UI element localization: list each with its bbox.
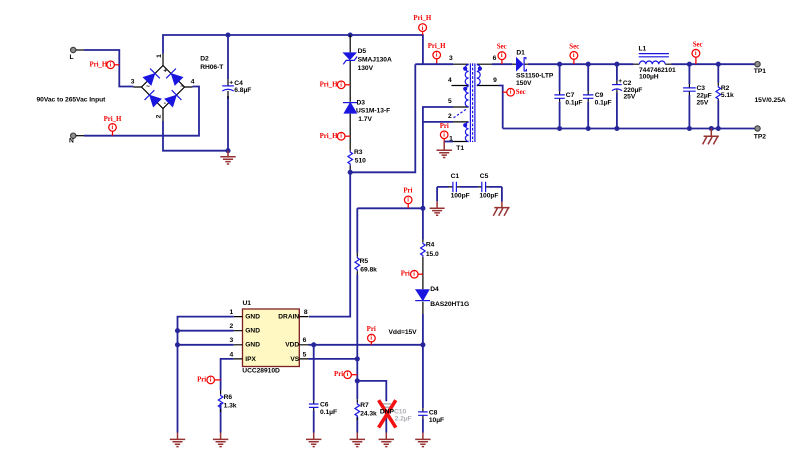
capacitor C4 — [222, 79, 251, 99]
test point TP2 — [754, 126, 766, 141]
svg-text:5.1k: 5.1k — [721, 92, 734, 99]
wire clamp column — [349, 35, 351, 172]
svg-text:L1: L1 — [639, 46, 647, 53]
svg-text:25V: 25V — [624, 94, 636, 101]
ground R7 — [350, 433, 365, 447]
svg-text:TP1: TP1 — [754, 68, 766, 75]
secondary winding 6-9 — [477, 65, 480, 85]
label Pri at R4/D4 — [401, 270, 423, 278]
polarity dot pri — [463, 67, 467, 71]
wire GND bus — [178, 317, 234, 433]
svg-text:C8: C8 — [429, 410, 438, 417]
label Pri at Vdd — [367, 326, 376, 345]
op-amp U1 body — [230, 300, 309, 375]
SECTION: clamp — [309, 32, 415, 316]
svg-text:+: + — [229, 80, 233, 87]
ground R6 — [213, 433, 228, 447]
ground C6 — [306, 433, 321, 447]
svg-text:Pri_H: Pri_H — [104, 116, 122, 123]
primary winding 4-5 — [465, 86, 468, 106]
svg-text:Pri_H: Pri_H — [320, 133, 338, 140]
svg-text:UCC28910D: UCC28910D — [242, 368, 280, 375]
svg-text:SS1150-LTP: SS1150-LTP — [516, 73, 554, 80]
svg-text:IPX: IPX — [245, 356, 256, 363]
svg-text:DNP: DNP — [380, 409, 395, 416]
inductor L1 — [639, 46, 677, 81]
wire bridge pin2 to gnd junction — [163, 121, 228, 151]
svg-text:100pF: 100pF — [451, 193, 470, 200]
svg-text:1: 1 — [156, 54, 163, 58]
wire VS — [309, 358, 358, 360]
svg-text:R5: R5 — [360, 258, 369, 265]
junction dot R3 bottom — [348, 170, 353, 175]
wire C10 branch — [357, 381, 386, 433]
svg-text:130V: 130V — [358, 65, 374, 72]
terminal N — [69, 133, 84, 145]
wire sec bottom rail — [503, 128, 755, 130]
svg-text:Sec: Sec — [569, 44, 579, 51]
label Pri_H clamp upper — [320, 81, 351, 89]
junction dot bus pin2 — [175, 328, 180, 333]
label Pri_H on L wire — [89, 61, 119, 69]
svg-text:R6: R6 — [224, 394, 233, 401]
wire C6 branch — [313, 345, 315, 433]
svg-text:+: + — [618, 78, 622, 85]
svg-text:Sec: Sec — [497, 44, 507, 51]
junction dot C2 bottom — [614, 126, 619, 131]
capacitor C9 — [583, 64, 612, 128]
svg-text:2.2µF: 2.2µF — [395, 415, 412, 422]
svg-text:3: 3 — [230, 337, 234, 344]
svg-text:8: 8 — [304, 309, 308, 316]
wire aux to R5 — [357, 207, 423, 209]
svg-text:Pri: Pri — [197, 376, 206, 383]
SECTION: controller — [170, 300, 423, 447]
svg-text:SMAJ130A: SMAJ130A — [358, 56, 392, 63]
wire Vdd down to C8 — [422, 345, 424, 433]
svg-text:~: ~ — [180, 83, 184, 90]
wire pin3 row — [415, 63, 453, 65]
svg-text:Pri_H: Pri_H — [320, 82, 338, 89]
svg-text:22µF: 22µF — [697, 92, 712, 99]
junction dot VDD/C6 — [311, 342, 316, 347]
svg-text:T1: T1 — [456, 145, 464, 152]
svg-text:US1M-13-F: US1M-13-F — [356, 108, 390, 115]
svg-text:5: 5 — [303, 351, 307, 358]
junction dot C3 top — [687, 62, 692, 67]
label Pri_H on N wire — [104, 116, 122, 136]
svg-text:510: 510 — [355, 157, 366, 164]
wire drain vertical — [309, 172, 350, 316]
svg-text:4: 4 — [191, 79, 195, 86]
svg-text:Pri_H: Pri_H — [428, 43, 446, 50]
ground C1 (earth) — [430, 201, 445, 215]
junction dot C9 top — [586, 62, 591, 67]
capacitor C6 — [309, 402, 337, 416]
SECTION: aux — [334, 187, 469, 446]
svg-text:Pri_H: Pri_H — [89, 62, 107, 69]
junction dot Vdd — [420, 342, 425, 347]
junction dot C7 bottom — [557, 126, 562, 131]
svg-text:10µF: 10µF — [429, 417, 444, 424]
label Pri_H top of bulk vertical — [413, 15, 431, 35]
svg-text:C1: C1 — [451, 173, 460, 180]
svg-text:Pri: Pri — [367, 326, 376, 333]
svg-text:~: ~ — [146, 83, 150, 90]
SECTION: transformer — [413, 15, 499, 208]
junction dot top rail C4 — [225, 32, 230, 37]
svg-text:R3: R3 — [354, 149, 363, 156]
SECTION: input — [37, 32, 423, 164]
resistor R7 — [355, 402, 377, 418]
diode D3 — [343, 99, 390, 123]
svg-text:GND: GND — [245, 314, 260, 321]
svg-text:D3: D3 — [357, 99, 366, 106]
svg-text:L: L — [70, 54, 74, 61]
resistor R2 — [716, 64, 734, 128]
svg-text:TP2: TP2 — [754, 134, 766, 141]
svg-text:0.1µF: 0.1µF — [565, 100, 582, 107]
svg-text:2: 2 — [230, 323, 234, 330]
ground C5 (chassis) — [493, 202, 509, 216]
svg-text:6.8µF: 6.8µF — [234, 87, 251, 94]
svg-text:69.8k: 69.8k — [360, 266, 377, 273]
svg-text:Pri: Pri — [401, 271, 410, 278]
phasing dashed line — [454, 109, 467, 118]
pin stubs — [452, 64, 500, 141]
wire T1 pin1 to ground — [444, 141, 453, 143]
svg-text:VS: VS — [290, 356, 299, 363]
primary winding 3-4 — [465, 65, 468, 85]
label Pri at T1 pin1 — [440, 123, 449, 142]
diode D4 — [415, 286, 469, 308]
wire VS to R7 junction — [356, 359, 358, 381]
terminal L — [70, 47, 85, 61]
pin stubs — [234, 317, 309, 359]
svg-text:U1: U1 — [243, 300, 252, 307]
svg-text:Pri: Pri — [440, 123, 449, 130]
svg-text:Sec: Sec — [516, 89, 526, 96]
svg-text:D5: D5 — [358, 48, 367, 55]
svg-text:BAS20HT1G: BAS20HT1G — [430, 301, 469, 308]
polarity dot pri2 — [463, 87, 467, 91]
label Pri at R7 — [334, 371, 357, 379]
svg-text:1.3k: 1.3k — [224, 402, 237, 409]
wire T1 pin9 to bottom rail — [499, 86, 503, 129]
svg-text:C4: C4 — [234, 80, 243, 87]
wire N to bridge — [84, 87, 199, 136]
wire R4 column — [422, 208, 424, 344]
svg-text:RH06-T: RH06-T — [200, 64, 224, 71]
svg-text:2: 2 — [155, 114, 162, 118]
capacitor C8 — [418, 410, 444, 424]
junction dot R7/C10 — [355, 378, 360, 383]
junction dot C3 bottom — [687, 126, 692, 131]
junction dot R2 top — [716, 62, 721, 67]
svg-text:24.3k: 24.3k — [360, 411, 377, 418]
SECTION: output — [430, 42, 786, 216]
resistor R3 — [348, 149, 366, 165]
transformer T1 — [448, 55, 499, 152]
wire top rail — [163, 35, 423, 64]
label Sec mid rail — [569, 44, 579, 64]
svg-text:R2: R2 — [721, 85, 730, 92]
svg-text:5: 5 — [448, 98, 452, 105]
svg-text:C3: C3 — [697, 85, 706, 92]
svg-text:GND: GND — [245, 328, 260, 335]
svg-text:1.7V: 1.7V — [358, 116, 372, 123]
resistor R5 — [355, 257, 377, 274]
ground C10 — [379, 433, 394, 447]
junction dot C7 top — [557, 62, 562, 67]
svg-text:25V: 25V — [697, 100, 709, 107]
svg-text:100µH: 100µH — [639, 74, 659, 81]
svg-text:Sec: Sec — [693, 42, 703, 49]
label Pri_H pin3 wire — [428, 43, 446, 64]
bridge diode UR — [166, 68, 184, 86]
wire R7 column — [356, 381, 358, 433]
chassis ground output — [703, 129, 719, 145]
svg-text:0.1µF: 0.1µF — [595, 100, 612, 107]
svg-text:C7: C7 — [566, 92, 575, 99]
svg-text:VDD: VDD — [285, 342, 299, 349]
wire C5 to chassis — [501, 187, 503, 202]
svg-text:6: 6 — [303, 337, 307, 344]
svg-text:3: 3 — [449, 55, 453, 62]
junction dot VS — [355, 356, 360, 361]
svg-text:D1: D1 — [516, 49, 525, 56]
label Pri_H clamp lower — [320, 132, 351, 140]
svg-text:C9: C9 — [595, 92, 604, 99]
svg-text:C6: C6 — [320, 402, 329, 409]
wire L to bridge — [84, 50, 134, 87]
capacitor C2 — [612, 64, 642, 128]
svg-text:D4: D4 — [430, 286, 439, 293]
svg-text:3: 3 — [131, 79, 135, 86]
junction dot bus pin3 — [175, 342, 180, 347]
label Pri at R6 — [197, 376, 220, 384]
Y-caps C1 C5 — [430, 173, 510, 216]
bridge diode LL — [144, 90, 162, 108]
capacitor C7 — [554, 64, 582, 128]
capacitor C3 — [683, 64, 712, 128]
svg-text:100pF: 100pF — [479, 193, 498, 200]
junction dot chassis — [709, 126, 714, 131]
ground bus — [170, 433, 185, 447]
svg-text:6: 6 — [493, 55, 497, 62]
svg-text:-: - — [164, 100, 166, 107]
svg-text:GND: GND — [245, 342, 260, 349]
svg-text:90Vac to 265Vac Input: 90Vac to 265Vac Input — [37, 97, 107, 104]
junction dot R2 bottom — [716, 126, 721, 131]
svg-text:4: 4 — [230, 351, 234, 358]
svg-text:9: 9 — [493, 77, 497, 84]
aux winding 2-1 — [465, 122, 468, 141]
junction dot top rail clamp — [348, 32, 353, 37]
wire pin5/pin2 vertical to aux junction — [423, 107, 453, 208]
wire C4 branch — [227, 35, 229, 151]
bridge rectifier D2 — [131, 54, 225, 122]
svg-text:Pri_H: Pri_H — [413, 15, 431, 22]
ground bridge/C4 — [220, 151, 235, 164]
polarity dot aux — [463, 123, 467, 127]
resistor R6 — [218, 394, 236, 409]
svg-text:1: 1 — [230, 309, 234, 316]
svg-text:15V/0.25A: 15V/0.25A — [755, 97, 786, 104]
junction dot aux node — [420, 206, 425, 211]
svg-text:Pri: Pri — [403, 187, 412, 194]
core — [470, 63, 475, 142]
label Pri at aux junction — [403, 187, 412, 208]
capacitor C1 — [453, 182, 457, 192]
wire VDD — [309, 344, 423, 346]
svg-text:D2: D2 — [200, 56, 209, 63]
test point TP1 — [754, 61, 766, 75]
wire C1 to ground — [436, 187, 438, 201]
capacitor C5 — [482, 182, 486, 192]
wire clamp return to switch node — [350, 64, 415, 172]
svg-text:4: 4 — [448, 77, 452, 84]
label Sec at pin9 — [503, 88, 526, 96]
diode D5 (TVS) — [342, 48, 392, 72]
svg-text:N: N — [69, 138, 74, 145]
svg-text:2: 2 — [448, 113, 452, 120]
svg-text:Vdd=15V: Vdd=15V — [389, 329, 418, 336]
svg-text:150V: 150V — [516, 80, 532, 87]
resistor R4 — [421, 242, 439, 258]
label Sec at D1 — [497, 44, 507, 64]
svg-text:R4: R4 — [426, 242, 435, 249]
junction dot bridge gnd — [225, 148, 230, 153]
svg-text:DRAIN: DRAIN — [278, 314, 299, 321]
capacitor C10 (DNP, grayed) — [379, 400, 412, 427]
junction dot C2 top — [614, 62, 619, 67]
svg-text:Pri: Pri — [334, 371, 343, 378]
svg-text:R7: R7 — [360, 402, 369, 409]
wire IPX to R6 — [221, 359, 234, 433]
svg-text:+: + — [163, 67, 167, 74]
wire R5 column — [356, 208, 358, 359]
junction dot C9 bottom — [586, 126, 591, 131]
label Sec at C3 — [692, 42, 703, 65]
polarity dot sec — [478, 67, 482, 71]
bridge diode UL — [142, 68, 160, 86]
svg-text:0.1µF: 0.1µF — [320, 409, 337, 416]
svg-text:C5: C5 — [480, 173, 489, 180]
diode D1 — [516, 49, 554, 87]
wire sec top rail — [492, 63, 755, 65]
ground C8 — [415, 433, 430, 447]
ground T1 pin1 — [437, 142, 452, 158]
bridge diode LR — [164, 90, 182, 108]
svg-text:15.0: 15.0 — [426, 251, 439, 258]
